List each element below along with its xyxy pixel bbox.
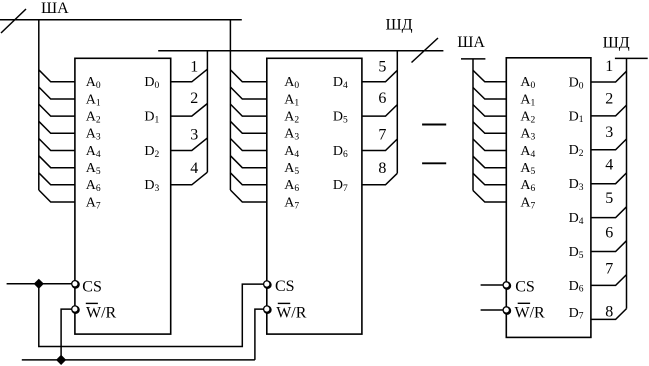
svg-text:7: 7	[605, 261, 613, 278]
address bus riser to chip DD1	[38, 20, 40, 190]
svg-text:CS: CS	[515, 279, 535, 296]
pin label A7 (DD1)	[86, 195, 101, 211]
svg-text:A0: A0	[520, 75, 535, 91]
continuation mark (lower dash)	[422, 162, 446, 164]
wire: data tap D0 from DD1	[171, 69, 208, 82]
pin label A2 (DD1)	[86, 110, 101, 126]
wire: address tap A3 to DD8	[473, 122, 506, 134]
svg-text:W/R: W/R	[276, 304, 307, 321]
svg-text:8: 8	[605, 304, 613, 321]
pin number 6 (DD8 data line)	[605, 225, 613, 242]
svg-text:D0: D0	[569, 75, 584, 91]
data bus riser from DD1 to ШД	[206, 51, 208, 173]
svg-text:D5: D5	[569, 245, 584, 261]
wire: CS net to DD2 (down, right, up)	[39, 284, 264, 347]
address bus stub ША (right)	[461, 58, 485, 60]
pin label CS (DD1)	[82, 278, 102, 295]
pin label D6 (DD2)	[333, 144, 348, 160]
svg-text:4: 4	[605, 157, 613, 174]
overline for W (DD2)	[278, 302, 290, 304]
wire: W/R input stub (DD8)	[481, 309, 504, 311]
bus-width slash on ША	[1, 9, 26, 33]
pin label D1 (DD8)	[569, 109, 584, 125]
svg-text:A0: A0	[86, 75, 101, 91]
pin label A1 (DD8)	[520, 92, 535, 108]
pin label D3 (DD1)	[144, 178, 159, 194]
svg-text:A3: A3	[520, 127, 535, 143]
svg-text:W/R: W/R	[86, 304, 117, 321]
wire: data tap D4 from DD2	[362, 70, 397, 82]
pin label D2 (DD8)	[569, 143, 584, 159]
wire: address tap A1 to DD2	[230, 87, 266, 99]
wire: address tap A5 to DD8	[473, 156, 506, 168]
wire: address tap A5 to DD1	[39, 156, 75, 168]
pin number 6 (DD2 data line)	[378, 90, 386, 107]
wire: address tap A0 to DD1	[39, 70, 75, 82]
svg-text:ША: ША	[41, 0, 69, 17]
pin label D4 (DD2)	[333, 75, 348, 91]
pin number 3 (DD1 data line)	[190, 126, 198, 143]
wire: data tap D6 from DD8	[591, 275, 627, 286]
pin label A0 (DD8)	[520, 75, 535, 91]
svg-text:A5: A5	[86, 161, 101, 177]
svg-text:2: 2	[190, 90, 198, 107]
svg-text:A3: A3	[284, 127, 299, 143]
svg-text:D6: D6	[569, 279, 584, 295]
pin label D5 (DD8)	[569, 245, 584, 261]
wire: address tap A7 to DD1	[39, 190, 75, 202]
svg-text:A6: A6	[86, 178, 101, 194]
inverting pin circle W/R (DD8)	[503, 307, 510, 314]
svg-text:1: 1	[605, 58, 613, 75]
svg-text:A2: A2	[86, 110, 101, 126]
pin label A0 (DD2)	[284, 75, 299, 91]
svg-text:D3: D3	[144, 178, 159, 194]
pin label D7 (DD8)	[569, 306, 584, 322]
pin label D2 (DD1)	[144, 144, 159, 160]
pin number 7 (DD2 data line)	[378, 126, 386, 143]
pin label A1 (DD1)	[86, 92, 101, 108]
pin label D6 (DD8)	[569, 279, 584, 295]
svg-text:A4: A4	[284, 144, 299, 160]
svg-text:3: 3	[605, 124, 613, 141]
svg-text:8: 8	[378, 160, 386, 177]
net label ША (right)	[457, 34, 485, 51]
svg-text:D3: D3	[569, 177, 584, 193]
svg-text:5: 5	[605, 190, 613, 207]
wire: address tap A7 to DD2	[230, 190, 266, 202]
data bus riser from DD8	[626, 58, 628, 308]
svg-text:A1: A1	[284, 92, 299, 108]
wire: address tap A2 to DD8	[473, 105, 506, 117]
pin number 1 (DD1 data line)	[190, 59, 198, 76]
wire: data tap D4 from DD8	[591, 207, 627, 218]
pin number 8 (DD8 data line)	[605, 304, 613, 321]
pin label W/R (DD8)	[515, 304, 546, 321]
pin label D5 (DD2)	[333, 110, 348, 126]
pin number 5 (DD2 data line)	[378, 59, 386, 76]
net label ША (left)	[41, 0, 69, 17]
pin label A3 (DD8)	[520, 127, 535, 143]
bus-width slash on ШД	[412, 38, 439, 63]
pin number 4 (DD1 data line)	[190, 160, 198, 177]
svg-text:ШД: ШД	[603, 35, 630, 52]
wire: address tap A6 to DD8	[473, 173, 506, 185]
svg-text:5: 5	[378, 59, 386, 76]
wire: address tap A4 to DD8	[473, 139, 506, 151]
svg-text:6: 6	[605, 225, 613, 242]
wire: address tap A0 to DD8	[473, 70, 506, 82]
pin label A5 (DD2)	[284, 161, 299, 177]
wire: data tap D5 from DD8	[591, 241, 627, 252]
pin label A6 (DD8)	[520, 178, 535, 194]
wire: address tap A1 to DD8	[473, 88, 506, 100]
data bus riser from DD2 to ШД	[396, 51, 398, 174]
wire: data tap D2 from DD8	[591, 139, 627, 150]
wire: data tap D3 from DD8	[591, 173, 627, 184]
wire: address tap A0 to DD2	[230, 70, 266, 82]
wire: data tap D2 from DD1	[171, 138, 208, 151]
pin number 3 (DD8 data line)	[605, 124, 613, 141]
inverting pin circle W/R (DD2)	[264, 306, 271, 313]
svg-text:A2: A2	[284, 110, 299, 126]
pin number 7 (DD8 data line)	[605, 261, 613, 278]
svg-text:7: 7	[378, 126, 386, 143]
svg-text:A7: A7	[86, 195, 101, 211]
wire: W/R stub from DD1 down to W/R net	[61, 309, 72, 360]
pin label A7 (DD8)	[520, 195, 535, 211]
pin label A0 (DD1)	[86, 75, 101, 91]
svg-text:6: 6	[378, 90, 386, 107]
svg-text:A0: A0	[284, 75, 299, 91]
svg-text:D0: D0	[144, 75, 159, 91]
svg-text:ШД: ШД	[386, 17, 413, 34]
wire: data tap D5 from DD2	[362, 105, 397, 117]
svg-text:D6: D6	[333, 144, 348, 160]
svg-text:CS: CS	[275, 278, 295, 295]
wire: address tap A5 to DD2	[230, 156, 266, 168]
svg-text:2: 2	[605, 91, 613, 108]
svg-text:D1: D1	[144, 110, 159, 126]
wire: CS input stub (DD8)	[481, 284, 504, 286]
svg-text:D4: D4	[333, 75, 348, 91]
data bus ШД (horizontal line, left)	[158, 50, 443, 52]
pin label CS (DD8)	[515, 279, 535, 296]
svg-text:A5: A5	[520, 161, 535, 177]
inverting pin circle W/R (DD1)	[72, 306, 79, 313]
pin label A6 (DD2)	[284, 178, 299, 194]
wire: data tap D7 from DD8	[591, 309, 627, 320]
svg-text:A1: A1	[86, 92, 101, 108]
svg-text:3: 3	[190, 126, 198, 143]
overline for W (DD8)	[518, 302, 530, 304]
svg-text:A4: A4	[520, 144, 535, 160]
pin number 8 (DD2 data line)	[378, 160, 386, 177]
inverting pin circle CS (DD1)	[72, 281, 79, 288]
data bus stub ШД (right)	[615, 57, 648, 59]
pin label D4 (DD8)	[569, 211, 584, 227]
junction dot on W/R net	[57, 356, 66, 365]
wire: address tap A3 to DD2	[230, 121, 266, 133]
wire: address tap A2 to DD2	[230, 104, 266, 116]
pin label A4 (DD2)	[284, 144, 299, 160]
wire: data tap D0 from DD8	[591, 71, 627, 82]
address bus ША (horizontal line, left)	[0, 19, 242, 21]
wire: address tap A2 to DD1	[39, 104, 75, 116]
pin number 2 (DD8 data line)	[605, 91, 613, 108]
svg-text:D7: D7	[569, 306, 584, 322]
svg-text:1: 1	[190, 59, 198, 76]
pin label A5 (DD1)	[86, 161, 101, 177]
svg-text:ША: ША	[457, 34, 485, 51]
pin number 4 (DD8 data line)	[605, 157, 613, 174]
svg-text:CS: CS	[82, 278, 102, 295]
svg-text:D5: D5	[333, 110, 348, 126]
net label ШД (right)	[603, 35, 630, 52]
svg-text:A7: A7	[284, 195, 299, 211]
wire: W/R input line (bottom)	[22, 359, 255, 361]
wire: address tap A1 to DD1	[39, 87, 75, 99]
inverting pin circle CS (DD2)	[264, 281, 271, 288]
wire: data tap D3 from DD1	[171, 172, 208, 185]
svg-text:A2: A2	[520, 110, 535, 126]
pin label W/R (DD1)	[86, 304, 117, 321]
pin label A7 (DD2)	[284, 195, 299, 211]
memory chip DD8 (body)	[506, 58, 591, 338]
svg-text:D2: D2	[569, 143, 584, 159]
wire: data tap D6 from DD2	[362, 139, 397, 151]
pin number 5 (DD8 data line)	[605, 190, 613, 207]
address bus riser to chip DD8	[472, 59, 474, 191]
svg-text:A7: A7	[520, 195, 535, 211]
pin label CS (DD2)	[275, 278, 295, 295]
pin label D3 (DD8)	[569, 177, 584, 193]
address bus riser to chip DD2	[229, 20, 231, 190]
svg-text:A1: A1	[520, 92, 535, 108]
wire: address tap A3 to DD1	[39, 121, 75, 133]
wire: address tap A6 to DD2	[230, 173, 266, 185]
svg-text:A6: A6	[520, 178, 535, 194]
pin label A2 (DD2)	[284, 110, 299, 126]
wire: address tap A4 to DD2	[230, 139, 266, 151]
pin label A3 (DD2)	[284, 127, 299, 143]
wire: address tap A4 to DD1	[39, 139, 75, 151]
svg-text:A6: A6	[284, 178, 299, 194]
pin label A1 (DD2)	[284, 92, 299, 108]
pin label A6 (DD1)	[86, 178, 101, 194]
pin label D0 (DD8)	[569, 75, 584, 91]
pin label A5 (DD8)	[520, 161, 535, 177]
pin label A3 (DD1)	[86, 127, 101, 143]
pin label D0 (DD1)	[144, 75, 159, 91]
pin label A4 (DD1)	[86, 144, 101, 160]
wire: data tap D1 from DD1	[171, 104, 208, 117]
overline for W (DD1)	[86, 302, 98, 304]
net label ШД (left)	[386, 17, 413, 34]
pin number 1 (DD8 data line)	[605, 58, 613, 75]
svg-text:D7: D7	[333, 178, 348, 194]
svg-text:W/R: W/R	[515, 304, 546, 321]
pin label D7 (DD2)	[333, 178, 348, 194]
wire: data tap D7 from DD2	[362, 173, 397, 185]
wire: address tap A6 to DD1	[39, 173, 75, 185]
memory chip DD1 (body)	[75, 58, 171, 334]
wire: address tap A7 to DD8	[473, 191, 506, 203]
inverting pin circle CS (DD8)	[503, 282, 510, 289]
junction dot on CS net	[34, 279, 43, 288]
svg-text:A5: A5	[284, 161, 299, 177]
svg-text:4: 4	[190, 160, 198, 177]
pin label A2 (DD8)	[520, 110, 535, 126]
svg-text:D1: D1	[569, 109, 584, 125]
wire: W/R net riser to DD2	[255, 309, 264, 360]
wire: data tap D1 from DD8	[591, 105, 627, 116]
continuation mark (upper dash)	[422, 124, 446, 126]
pin label W/R (DD2)	[276, 304, 307, 321]
wire: CS input stub (left)	[7, 283, 72, 285]
pin number 2 (DD1 data line)	[190, 90, 198, 107]
pin label D1 (DD1)	[144, 110, 159, 126]
svg-text:A4: A4	[86, 144, 101, 160]
memory chip DD2 (body)	[267, 58, 362, 334]
svg-text:D2: D2	[144, 144, 159, 160]
pin label A4 (DD8)	[520, 144, 535, 160]
svg-text:A3: A3	[86, 127, 101, 143]
svg-text:D4: D4	[569, 211, 584, 227]
